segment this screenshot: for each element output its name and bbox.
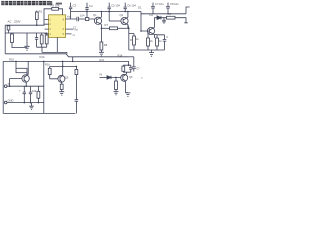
resistor R22 parallel: [122, 66, 125, 71]
wire lower row: [7, 102, 44, 104]
wire R10 bottom: [133, 45, 135, 50]
wire Q2 emitter down: [127, 25, 130, 50]
ground G2: [99, 50, 104, 56]
wire fuse stub: [8, 30, 10, 33]
node dot R1: [36, 24, 38, 26]
node dot: [115, 77, 117, 79]
resistor R3: [40, 35, 43, 44]
node dots on rail: [86, 11, 88, 13]
resistor R16 top loop: [15, 61, 17, 68]
svg-text:R14: R14: [118, 53, 123, 57]
node dot: [43, 61, 45, 63]
resistor R12: [156, 38, 159, 46]
node dot R11: [147, 30, 149, 32]
wire feedback loop: [44, 9, 63, 25]
U1 pin labels: [49, 18, 64, 36]
svg-text:Q1: Q1: [93, 13, 97, 17]
svg-text:Q5: Q5: [65, 76, 69, 80]
capacitor tower C6: [124, 3, 127, 12]
capacitor tower C8: [166, 3, 170, 14]
U1 pin stubs right: [66, 19, 74, 34]
transistor Q6: [121, 74, 128, 81]
wire IC ground run: [42, 52, 67, 53]
svg-text:C3: C3: [73, 3, 77, 7]
node dots input row: [9, 85, 11, 87]
wire parallel bottom: [123, 71, 131, 74]
transistor Q1: [94, 17, 101, 24]
ground G6: [125, 93, 130, 97]
resistor R23: [115, 81, 118, 90]
capacitor tower C5: [108, 3, 111, 21]
node dot: [76, 66, 78, 68]
wire cluster bus: [37, 47, 47, 52]
svg-text:R9: R9: [168, 12, 172, 16]
transistor Q2: [121, 17, 128, 24]
wire Q5 feed: [50, 65, 77, 67]
wire left border upper: [4, 25, 6, 54]
wire right branch: [129, 56, 134, 58]
svg-text:C7 10u: C7 10u: [155, 2, 164, 6]
wire rail right seg: [141, 12, 186, 14]
svg-text:C8 10u: C8 10u: [170, 2, 179, 6]
capacitor C14 parallel: [129, 67, 133, 72]
wire output: [175, 18, 188, 23]
svg-text:Q6: Q6: [129, 75, 133, 79]
wire left border lower: [2, 61, 4, 113]
capacitor C10: [157, 35, 166, 50]
wire base line Q1: [71, 18, 95, 20]
wire R1 stubs: [36, 11, 38, 26]
capacitor C9s: [162, 18, 165, 24]
capacitor tower C7: [151, 3, 155, 14]
svg-text:104: 104: [32, 89, 37, 93]
wire Q1 emitter down: [100, 28, 102, 42]
svg-text:C5 104: C5 104: [111, 3, 120, 7]
node dots lower row: [24, 102, 26, 104]
wire mid vertical: [43, 61, 45, 113]
transistor Q3: [147, 27, 154, 34]
wire: [118, 27, 129, 29]
wire base Q6: [100, 76, 108, 78]
resistor R6 inline: [85, 18, 88, 21]
wire R17 stubs: [37, 86, 39, 102]
node dot Q3 base: [140, 30, 142, 32]
wire R2 bottom: [12, 33, 27, 48]
svg-text:GND: GND: [8, 98, 14, 102]
wire right end riser: [186, 7, 190, 14]
resistor R18: [48, 68, 51, 74]
capacitor C13 inline: [75, 100, 79, 114]
wire bottom rail: [3, 112, 75, 114]
resistor R2: [11, 34, 14, 43]
wire Q3 base riser: [141, 14, 147, 31]
wire R3 stubs: [41, 33, 43, 47]
wire top rail: [71, 11, 141, 13]
resistor R4: [45, 35, 48, 44]
resistor R19: [60, 84, 63, 89]
wire R23 stubs: [115, 77, 117, 91]
U1 pin stubs left: [45, 19, 49, 34]
svg-text:C?: C?: [136, 67, 140, 71]
svg-text:C: C: [167, 36, 169, 39]
transistor Q4: [22, 75, 29, 82]
wire R18 stubs: [50, 66, 58, 78]
capacitor C2 inline: [77, 17, 79, 22]
capacitor C15: [132, 57, 136, 72]
wire emitter row: [101, 27, 109, 29]
wire parallel top: [123, 65, 131, 67]
node dot riser: [72, 61, 74, 63]
wire R20 stubs: [75, 66, 77, 99]
svg-text:D1: D1: [138, 6, 142, 10]
svg-text:2k: 2k: [150, 40, 153, 43]
node dot Q2 rail: [127, 11, 129, 13]
ground G5: [59, 90, 64, 96]
wire collector Q4: [27, 61, 29, 75]
label values cluster: [136, 36, 169, 43]
fuse F1: [7, 26, 10, 30]
resistor R7: [110, 27, 118, 30]
wire lower right drop: [128, 61, 130, 65]
diode D3: [107, 76, 121, 79]
resistor R17: [37, 91, 40, 98]
resistor R9: [167, 16, 176, 19]
capacitor tower C4: [85, 3, 88, 18]
capacitor C12: [29, 86, 32, 102]
wire riser join rails: [72, 57, 74, 62]
svg-text:R21: R21: [100, 58, 105, 62]
ground G1: [24, 33, 29, 50]
ground G3: [149, 50, 154, 56]
diode D2: [154, 16, 166, 20]
svg-text:IN: IN: [100, 72, 103, 76]
node dot: [128, 28, 130, 30]
wire base Q4: [10, 79, 22, 87]
title text: [1, 1, 62, 5]
resistor R11: [147, 38, 150, 46]
svg-text:C4: C4: [89, 4, 93, 8]
svg-text:R16: R16: [45, 62, 50, 66]
wire Q2 base: [109, 20, 121, 22]
svg-text:R8: R8: [104, 43, 108, 47]
wire R4 stubs: [46, 33, 48, 47]
node dot: [128, 64, 130, 66]
node dot: [15, 61, 17, 63]
svg-text:R: R: [130, 38, 132, 42]
svg-text:R7: R7: [105, 23, 109, 27]
transistor Q5: [58, 75, 65, 82]
wire R12 stubs: [154, 35, 157, 50]
node dot: [101, 28, 103, 30]
wire right cluster left: [129, 34, 134, 37]
wire Q5 collector riser: [62, 61, 64, 75]
U1 bottom pin: [56, 37, 58, 52]
node dots: [62, 61, 64, 63]
svg-text:D2: D2: [150, 13, 154, 17]
svg-text:220V: 220V: [14, 20, 21, 24]
svg-text:+: +: [19, 90, 21, 93]
wire upper bottom rail: [5, 54, 128, 57]
resistor R8: [100, 42, 103, 50]
svg-text:R1: R1: [39, 10, 43, 14]
svg-text:R13: R13: [40, 55, 45, 59]
wire mid rail: [5, 32, 47, 34]
resistor R20: [75, 69, 78, 74]
wire lower section top rail: [3, 60, 128, 62]
op-amp U1 body: [49, 15, 66, 38]
svg-text:R5 10k: R5 10k: [51, 3, 60, 7]
wire bus right cluster: [129, 49, 165, 51]
capacitor tower C3: [69, 3, 72, 19]
svg-text:104: 104: [80, 13, 85, 17]
svg-text:AC: AC: [8, 20, 12, 24]
svg-text:R15: R15: [9, 58, 14, 62]
wire R11 stubs: [147, 31, 149, 50]
capacitor C1: [35, 33, 38, 47]
svg-text:cv: cv: [73, 34, 76, 37]
wire AC input: [5, 24, 44, 26]
svg-text:1k: 1k: [136, 38, 139, 41]
svg-text:C6 104: C6 104: [127, 3, 136, 7]
capacitor C11: [23, 86, 26, 102]
resistor R10: [133, 36, 136, 45]
svg-text:1k: 1k: [159, 40, 162, 43]
resistor R1: [35, 12, 38, 20]
ground G7: [114, 92, 119, 95]
svg-text:IN: IN: [8, 82, 11, 86]
svg-text:Q2: Q2: [120, 13, 124, 17]
terminal T2: [4, 101, 7, 104]
node dot Q1 rail: [101, 11, 103, 13]
terminal T1: [4, 85, 7, 88]
ground G4: [29, 103, 34, 110]
wire input row: [7, 85, 44, 87]
resistor R5 feedback: [52, 7, 59, 10]
svg-text:o: o: [141, 77, 143, 80]
